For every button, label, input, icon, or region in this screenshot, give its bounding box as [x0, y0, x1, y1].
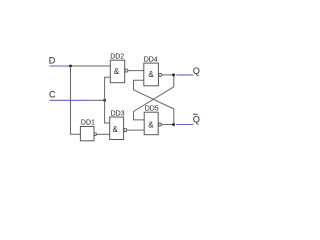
inverter DD1: [80, 120, 96, 141]
wire DD2 output to DD4 upper input: [128, 70, 144, 72]
wire C riser to DD3 upper input: [105, 100, 110, 123]
svg-text:DD5: DD5: [145, 105, 159, 112]
wire D junction down to DD1: [71, 66, 81, 134]
svg-text:Q: Q: [193, 66, 200, 76]
node Qbar junction: [172, 123, 175, 126]
wire feedback Q to DD5 upper input: [134, 76, 174, 120]
wire D to DD2 input: [71, 65, 111, 67]
svg-text:&: &: [148, 70, 154, 79]
wire Qbar output (blue): [176, 124, 193, 126]
svg-text:DD1: DD1: [81, 120, 95, 127]
svg-text:DD4: DD4: [144, 57, 158, 64]
nand gate DD2: [110, 54, 128, 83]
node Q label: [193, 66, 200, 76]
nand gate DD3: [110, 111, 127, 140]
svg-text:&: &: [148, 120, 154, 129]
wire C input (blue): [50, 99, 90, 101]
nand gate DD4: [144, 57, 162, 86]
svg-text:C: C: [49, 90, 56, 100]
wire DD5 output: [161, 124, 173, 126]
nand gate DD5: [144, 105, 161, 134]
wire D input (blue): [50, 65, 71, 67]
svg-text:&: &: [113, 125, 119, 134]
svg-text:&: &: [114, 67, 120, 76]
wire DD1 output to DD3 lower input: [97, 133, 110, 135]
wire C riser to DD2 lower input: [105, 77, 111, 100]
node D junction: [69, 65, 72, 68]
wire DD3 output to DD5 lower input: [127, 129, 144, 131]
node D label: [49, 56, 56, 66]
svg-text:D: D: [49, 56, 56, 66]
node C junction: [103, 99, 106, 102]
wire Q output (blue): [176, 74, 193, 76]
wire feedback Qbar to DD4 lower input: [134, 80, 174, 124]
svg-text:DD2: DD2: [110, 54, 124, 61]
wire DD4 output: [162, 74, 174, 76]
node Qbar label: [193, 114, 200, 125]
node Q junction: [172, 74, 175, 77]
wire C to junction: [90, 99, 105, 101]
svg-text:Q: Q: [193, 115, 200, 125]
node C label: [49, 90, 56, 100]
